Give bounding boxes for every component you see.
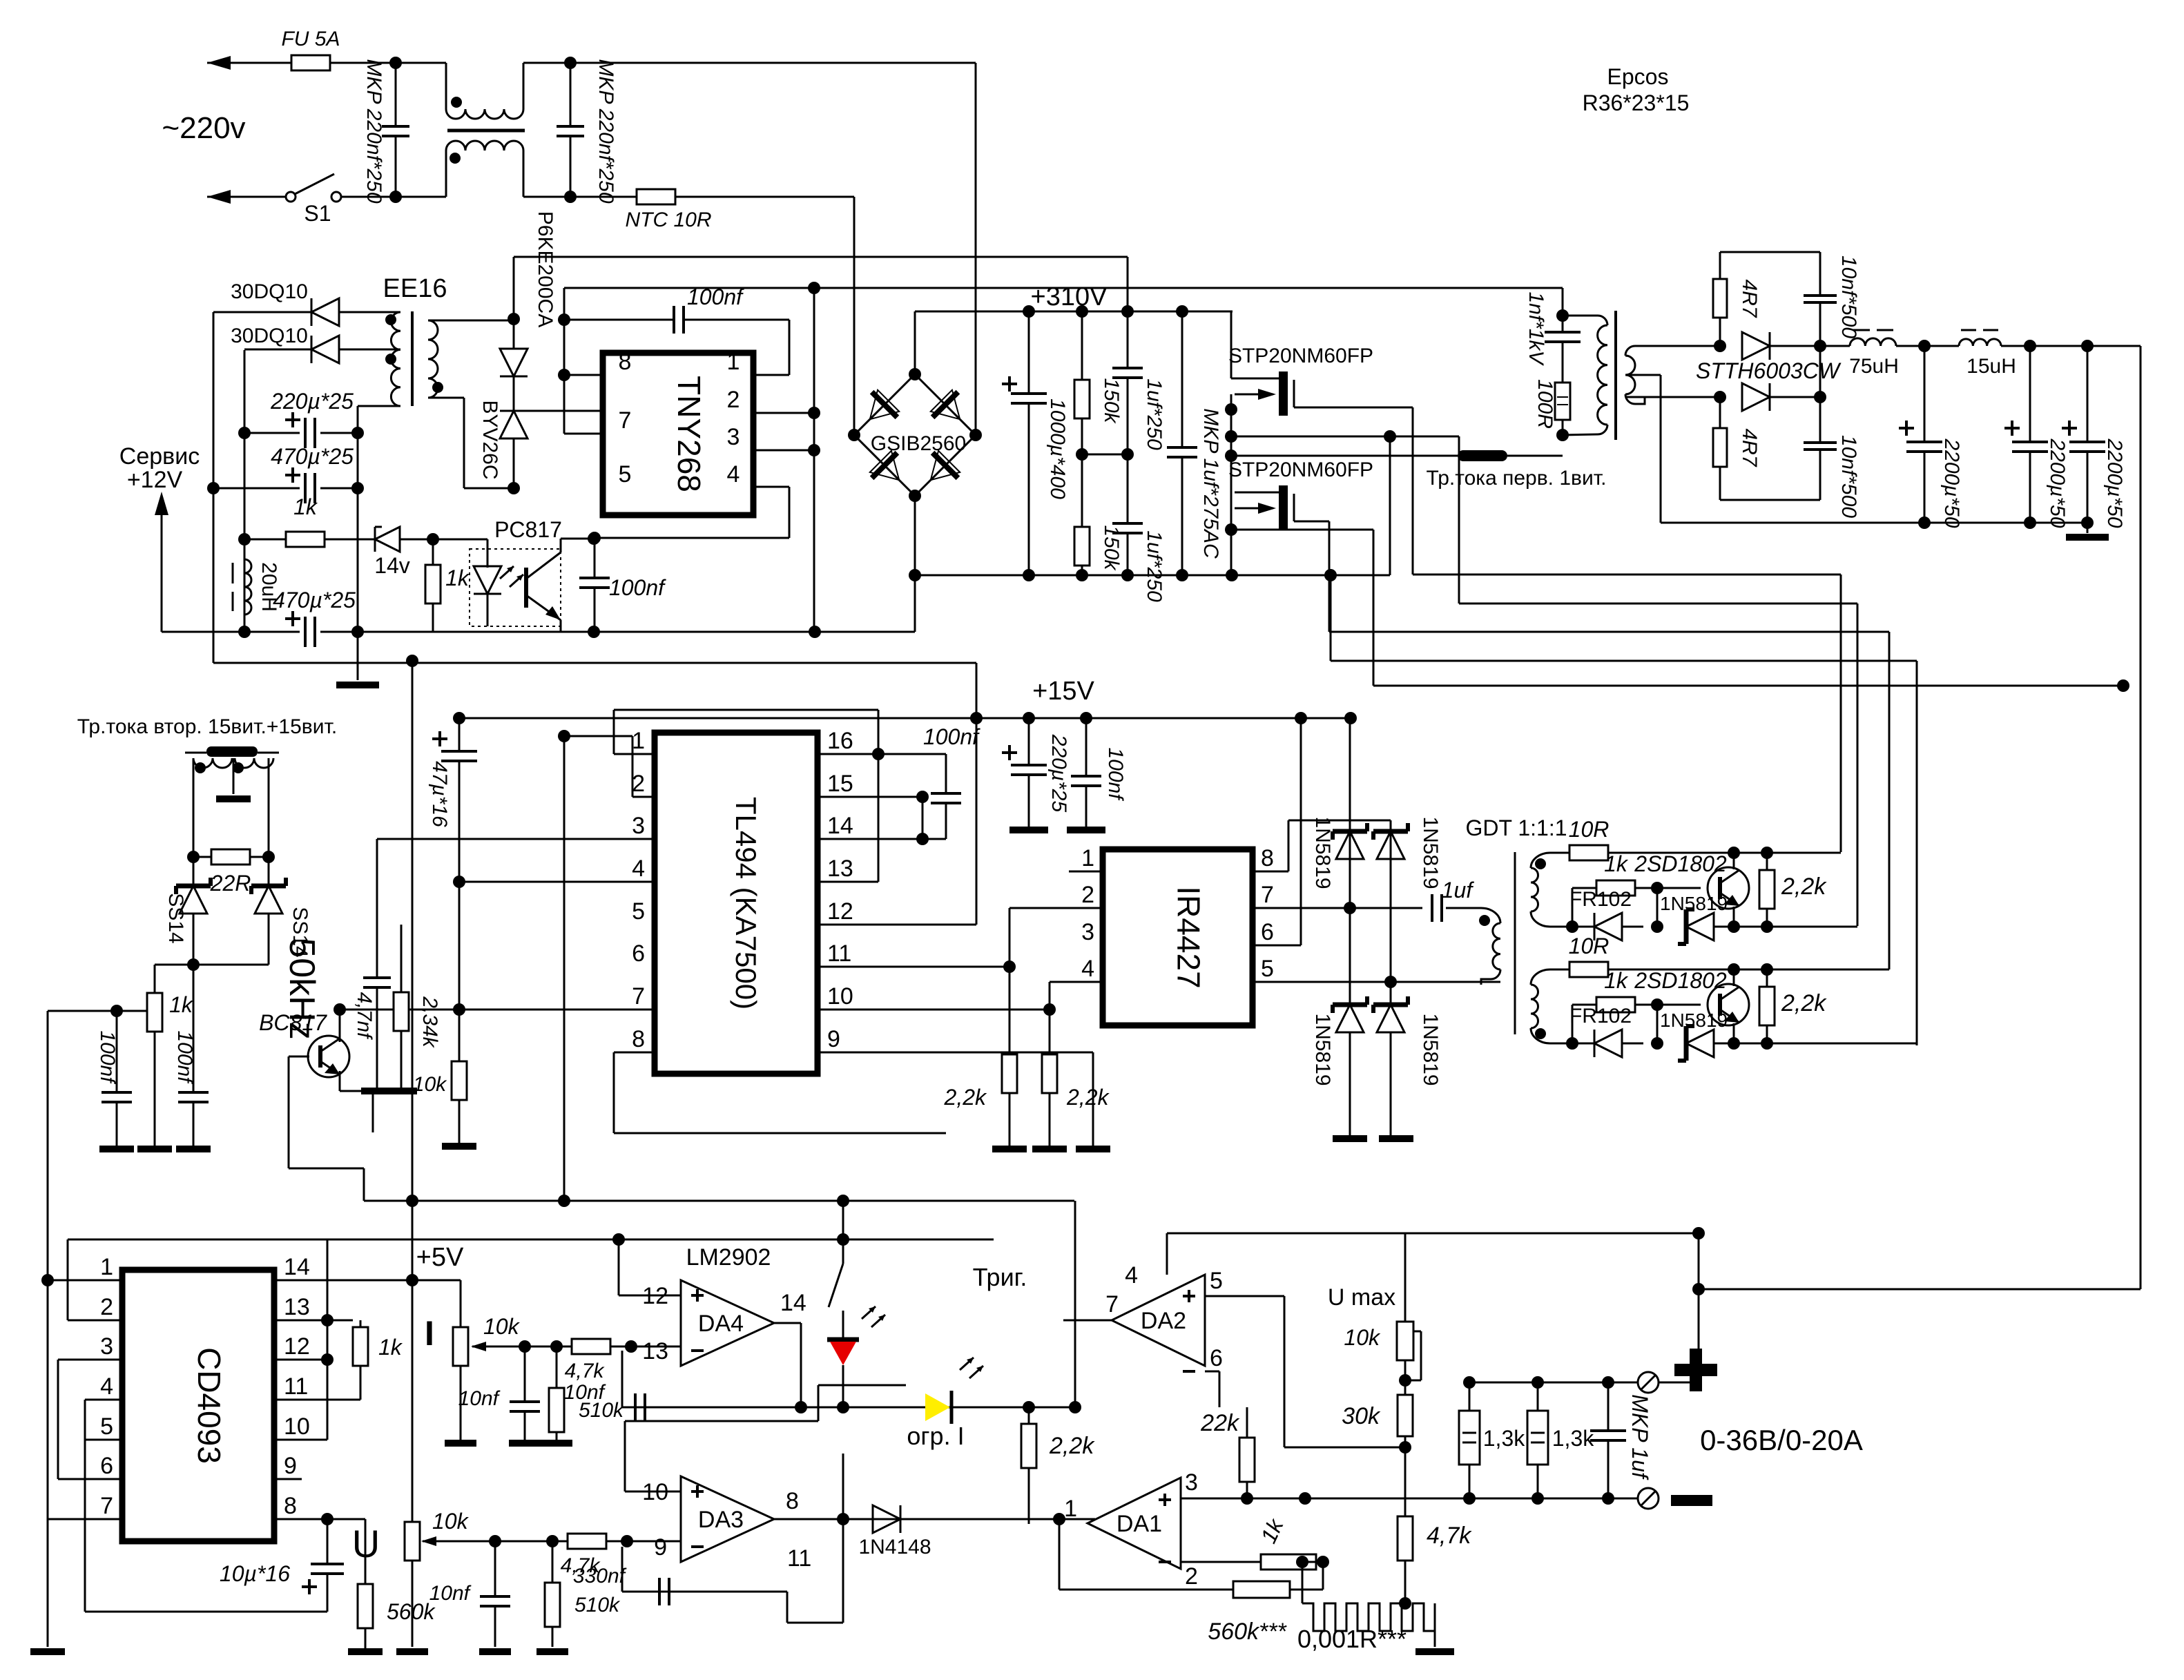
svg-text:3: 3 [1185, 1469, 1198, 1496]
svg-text:1k: 1k [293, 494, 318, 519]
svg-text:1uf: 1uf [1442, 878, 1475, 902]
svg-text:1000µ*400: 1000µ*400 [1046, 398, 1069, 499]
svg-text:1uf*250: 1uf*250 [1143, 530, 1166, 602]
svg-text:P6KE200CA: P6KE200CA [534, 211, 557, 327]
svg-text:1k: 1k [1604, 851, 1629, 876]
svg-text:7: 7 [619, 407, 632, 434]
svg-text:2200µ*50: 2200µ*50 [2103, 438, 2126, 528]
svg-text:1N4148: 1N4148 [858, 1536, 931, 1558]
svg-text:10nf*500: 10nf*500 [1837, 255, 1860, 338]
svg-text:1N5819: 1N5819 [1419, 816, 1442, 889]
svg-text:22k: 22k [1200, 1410, 1240, 1436]
svg-text:30DQ10: 30DQ10 [231, 325, 308, 347]
svg-text:47µ*16: 47µ*16 [428, 761, 451, 827]
svg-text:3: 3 [1081, 919, 1094, 945]
svg-text:16: 16 [827, 728, 853, 754]
svg-text:DA3: DA3 [698, 1507, 744, 1533]
svg-text:14: 14 [827, 813, 853, 839]
svg-text:12: 12 [284, 1333, 310, 1360]
svg-text:2,34k: 2,34k [418, 996, 441, 1048]
svg-text:220µ*25: 220µ*25 [1047, 734, 1070, 813]
svg-text:STP20NM60FP: STP20NM60FP [1228, 345, 1373, 367]
svg-text:4R7: 4R7 [1738, 428, 1761, 467]
svg-text:2,2k: 2,2k [1049, 1433, 1095, 1459]
svg-text:100nf: 100nf [609, 575, 666, 600]
svg-text:DA4: DA4 [698, 1311, 744, 1337]
svg-text:1N5819: 1N5819 [1311, 1013, 1334, 1085]
svg-text:MKP 220nf*250: MKP 220nf*250 [595, 59, 617, 203]
svg-text:1: 1 [1064, 1496, 1077, 1522]
svg-text:DA2: DA2 [1141, 1308, 1186, 1334]
svg-text:7: 7 [1105, 1291, 1119, 1317]
svg-text:R36*23*15: R36*23*15 [1583, 90, 1690, 115]
svg-text:75uH: 75uH [1849, 355, 1899, 378]
svg-text:2: 2 [632, 771, 645, 797]
svg-text:MKP 1uf*275AC: MKP 1uf*275AC [1199, 408, 1222, 559]
svg-text:Триг.: Триг. [973, 1263, 1027, 1291]
svg-text:TNY268: TNY268 [671, 376, 707, 492]
svg-text:FR102: FR102 [1569, 1005, 1632, 1027]
svg-text:2SD1802: 2SD1802 [1634, 968, 1727, 993]
svg-text:Epcos: Epcos [1607, 64, 1669, 89]
svg-text:Тр.тока перв. 1вит.: Тр.тока перв. 1вит. [1427, 467, 1607, 490]
svg-text:10k: 10k [483, 1314, 521, 1339]
svg-text:FU 5A: FU 5A [281, 28, 340, 50]
svg-text:1N5819: 1N5819 [1660, 893, 1728, 914]
svg-text:1,3k: 1,3k [1483, 1426, 1525, 1451]
svg-text:NTC 10R: NTC 10R [625, 209, 711, 231]
svg-text:1N5819: 1N5819 [1419, 1013, 1442, 1085]
svg-text:2,2k: 2,2k [1781, 873, 1827, 900]
svg-text:14v: 14v [374, 553, 410, 578]
svg-text:470µ*25: 470µ*25 [273, 588, 356, 612]
svg-text:10k: 10k [413, 1073, 447, 1096]
svg-text:LM2902: LM2902 [686, 1244, 771, 1271]
svg-text:+12V: +12V [127, 467, 183, 493]
svg-text:14: 14 [284, 1254, 310, 1280]
svg-text:6: 6 [100, 1453, 113, 1479]
svg-text:+310V: +310V [1031, 282, 1108, 311]
svg-text:10: 10 [827, 983, 853, 1010]
svg-text:11: 11 [827, 940, 851, 967]
svg-text:10nf*500: 10nf*500 [1837, 435, 1860, 518]
svg-text:10: 10 [284, 1413, 310, 1440]
svg-text:U: U [352, 1522, 380, 1565]
svg-text:3: 3 [632, 813, 645, 839]
svg-text:22R: 22R [210, 871, 251, 896]
svg-text:100nf: 100nf [173, 1030, 196, 1084]
svg-text:IR4427: IR4427 [1171, 886, 1207, 988]
svg-text:1k: 1k [378, 1335, 403, 1360]
svg-text:10nf: 10nf [458, 1387, 501, 1410]
svg-text:11: 11 [284, 1373, 308, 1400]
svg-text:2,2k: 2,2k [1066, 1085, 1110, 1110]
svg-text:1k: 1k [1604, 968, 1629, 993]
svg-text:510k: 510k [574, 1594, 621, 1616]
svg-text:11: 11 [787, 1545, 811, 1572]
svg-text:14: 14 [780, 1290, 806, 1316]
svg-text:30k: 30k [1342, 1403, 1381, 1429]
svg-text:1: 1 [100, 1254, 113, 1280]
svg-text:2,2k: 2,2k [944, 1085, 987, 1110]
svg-text:4: 4 [727, 461, 740, 487]
svg-text:4R7: 4R7 [1738, 279, 1761, 318]
svg-text:2200µ*50: 2200µ*50 [1940, 438, 1963, 528]
svg-text:I: I [425, 1314, 434, 1353]
svg-text:FR102: FR102 [1569, 888, 1632, 911]
svg-text:50kHz: 50kHz [282, 938, 322, 1039]
svg-text:MKP 220nf*250: MKP 220nf*250 [363, 59, 385, 203]
svg-text:100nf: 100nf [96, 1030, 119, 1084]
svg-text:13: 13 [642, 1338, 668, 1364]
svg-text:4: 4 [632, 856, 645, 882]
svg-text:10nf: 10nf [429, 1582, 472, 1605]
svg-text:5: 5 [1261, 956, 1274, 982]
svg-text:1: 1 [632, 728, 645, 754]
svg-text:330nf: 330nf [573, 1565, 627, 1587]
svg-text:9: 9 [654, 1534, 667, 1561]
svg-text:GDT 1:1:1: GDT 1:1:1 [1465, 815, 1567, 840]
svg-text:BYV26C: BYV26C [479, 400, 501, 479]
svg-text:6: 6 [632, 940, 645, 967]
svg-text:13: 13 [284, 1294, 310, 1320]
svg-text:8: 8 [1261, 845, 1274, 871]
svg-text:6: 6 [1210, 1345, 1223, 1371]
svg-text:+5V: +5V [416, 1243, 464, 1272]
svg-text:0,001R***: 0,001R*** [1297, 1625, 1407, 1653]
svg-text:+15V: +15V [1032, 677, 1094, 706]
svg-text:1N5819: 1N5819 [1311, 816, 1334, 889]
svg-text:7: 7 [1261, 882, 1274, 908]
svg-text:5: 5 [1210, 1268, 1223, 1294]
svg-text:470µ*25: 470µ*25 [271, 444, 354, 469]
svg-text:STP20NM60FP: STP20NM60FP [1228, 458, 1373, 481]
svg-text:TL494 (KA7500): TL494 (KA7500) [730, 797, 762, 1010]
svg-text:220µ*25: 220µ*25 [270, 389, 354, 414]
svg-text:SS14: SS14 [164, 893, 187, 943]
svg-text:2200µ*50: 2200µ*50 [2046, 438, 2069, 528]
svg-text:4,7k: 4,7k [565, 1360, 606, 1382]
svg-text:~220v: ~220v [162, 111, 245, 145]
svg-text:30DQ10: 30DQ10 [231, 280, 308, 303]
svg-text:13: 13 [827, 856, 853, 882]
svg-text:1: 1 [1081, 845, 1094, 871]
svg-text:4,7nf: 4,7nf [353, 992, 376, 1040]
svg-text:10R: 10R [1569, 934, 1610, 958]
svg-text:1N5819: 1N5819 [1660, 1010, 1728, 1031]
svg-text:U max: U max [1328, 1284, 1395, 1311]
svg-text:1: 1 [727, 349, 740, 375]
svg-text:2: 2 [727, 387, 740, 413]
svg-text:3: 3 [727, 424, 740, 450]
svg-text:2SD1802: 2SD1802 [1634, 851, 1727, 876]
svg-text:9: 9 [284, 1453, 297, 1479]
svg-text:4: 4 [100, 1373, 113, 1400]
svg-text:PC817: PC817 [494, 517, 562, 542]
svg-text:3: 3 [100, 1333, 113, 1360]
svg-text:100R: 100R [1534, 379, 1556, 429]
svg-text:10nf: 10nf [564, 1381, 606, 1404]
svg-text:5: 5 [100, 1413, 113, 1440]
svg-text:Сервис: Сервис [119, 443, 200, 470]
svg-text:8: 8 [619, 349, 632, 375]
svg-text:12: 12 [827, 898, 853, 925]
svg-text:4,7k: 4,7k [1427, 1523, 1472, 1549]
svg-text:5: 5 [619, 461, 632, 487]
svg-text:DA1: DA1 [1117, 1511, 1162, 1537]
svg-text:10k: 10k [1344, 1325, 1381, 1350]
svg-text:1nf*1kV: 1nf*1kV [1525, 291, 1547, 366]
svg-text:EE16: EE16 [383, 274, 447, 303]
svg-text:огр. I: огр. I [907, 1422, 964, 1450]
svg-text:CD4093: CD4093 [191, 1347, 227, 1464]
svg-text:8: 8 [632, 1026, 645, 1052]
svg-text:2,2k: 2,2k [1781, 990, 1827, 1016]
svg-text:10µ*16: 10µ*16 [220, 1561, 290, 1586]
svg-text:7: 7 [100, 1493, 113, 1519]
svg-text:150k: 150k [1100, 378, 1123, 424]
svg-text:2: 2 [1081, 882, 1094, 908]
svg-text:100nf: 100nf [1104, 747, 1127, 801]
svg-text:10k: 10k [432, 1509, 470, 1534]
svg-text:8: 8 [284, 1493, 297, 1519]
svg-text:10R: 10R [1569, 817, 1610, 842]
svg-text:100nf: 100nf [687, 284, 744, 309]
svg-text:0-36В/0-20А: 0-36В/0-20А [1700, 1424, 1863, 1456]
svg-text:1,3k: 1,3k [1552, 1426, 1594, 1451]
svg-text:4: 4 [1125, 1262, 1138, 1288]
svg-text:15: 15 [827, 771, 853, 797]
svg-text:4: 4 [1081, 956, 1094, 982]
svg-text:560k***: 560k*** [1208, 1619, 1287, 1645]
svg-text:1k: 1k [169, 992, 194, 1017]
svg-text:5: 5 [632, 898, 645, 925]
svg-text:9: 9 [827, 1026, 840, 1052]
svg-text:MKP 1uf: MKP 1uf [1627, 1394, 1652, 1480]
svg-text:2: 2 [100, 1294, 113, 1320]
svg-text:8: 8 [786, 1488, 799, 1514]
svg-text:15uH: 15uH [1966, 355, 2016, 378]
svg-text:2: 2 [1185, 1563, 1198, 1590]
svg-text:1k: 1k [445, 566, 470, 590]
svg-text:6: 6 [1261, 919, 1274, 945]
svg-text:Тр.тока втор. 15вит.+15вит.: Тр.тока втор. 15вит.+15вит. [77, 715, 337, 738]
svg-text:1uf*250: 1uf*250 [1143, 378, 1166, 450]
svg-text:7: 7 [632, 983, 645, 1010]
svg-text:100nf: 100nf [923, 724, 980, 749]
svg-text:S1: S1 [304, 201, 331, 226]
svg-text:GSIB2560: GSIB2560 [871, 432, 966, 455]
